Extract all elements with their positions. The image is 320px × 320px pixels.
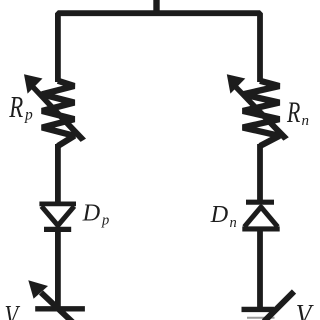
svg-text:p: p xyxy=(24,107,33,124)
svg-text:p: p xyxy=(101,212,109,228)
svg-text:V: V xyxy=(296,299,314,320)
svg-text:n: n xyxy=(302,113,310,129)
svg-text:R: R xyxy=(8,90,23,124)
svg-text:D: D xyxy=(210,201,229,228)
svg-text:n: n xyxy=(230,215,237,231)
svg-text:D: D xyxy=(82,200,101,227)
svg-text:R: R xyxy=(286,96,300,129)
